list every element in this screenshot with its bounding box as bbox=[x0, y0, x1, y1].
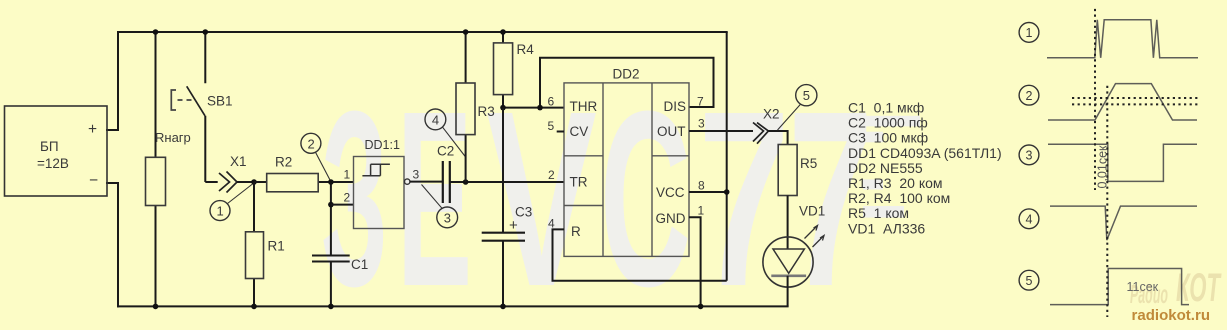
resistor Rnagr bbox=[146, 32, 191, 306]
svg-text:C3 100 мкф: C3 100 мкф bbox=[848, 130, 928, 146]
svg-text:C1: C1 bbox=[351, 257, 368, 272]
junction X1-R1-R2 bbox=[251, 179, 257, 185]
svg-text:1: 1 bbox=[1026, 26, 1033, 40]
waveform 3 bbox=[1048, 144, 1197, 181]
svg-text:DD2: DD2 bbox=[613, 67, 640, 82]
node 4 callout bbox=[425, 109, 466, 157]
svg-text:R1, R3 20 ком: R1, R3 20 ком bbox=[848, 175, 943, 191]
threshold dotted lines bbox=[1072, 98, 1198, 104]
svg-text:X1: X1 bbox=[230, 154, 247, 169]
diagram circle 5 bbox=[1019, 270, 1039, 290]
svg-text:3: 3 bbox=[444, 210, 451, 225]
diagram circle 2 bbox=[1019, 85, 1039, 105]
svg-text:C2: C2 bbox=[437, 144, 454, 159]
junction Rnagr top rail bbox=[153, 29, 159, 35]
svg-text:DD1:1: DD1:1 bbox=[365, 138, 400, 152]
svg-text:DIS: DIS bbox=[664, 99, 687, 114]
dotted time reference line 2 bbox=[1106, 86, 1108, 317]
svg-text:4: 4 bbox=[1026, 213, 1033, 227]
svg-text:5: 5 bbox=[1026, 274, 1033, 288]
svg-text:4: 4 bbox=[432, 112, 439, 127]
LED VD1 bbox=[763, 204, 825, 307]
wire THR node down to C3 bbox=[502, 108, 504, 233]
svg-text:X2: X2 bbox=[763, 107, 780, 122]
junction Rnagr bottom rail bbox=[153, 304, 159, 310]
MAIN SCHEMATIC bbox=[107, 32, 788, 306]
junction SB1 top rail bbox=[203, 29, 209, 35]
waveform 5 bbox=[1050, 269, 1189, 305]
svg-text:3: 3 bbox=[1026, 149, 1033, 163]
svg-text:КОТ: КОТ bbox=[1176, 266, 1222, 310]
svg-text:VD1: VD1 bbox=[799, 204, 825, 219]
diagram circle 4 bbox=[1019, 209, 1039, 229]
svg-text:2: 2 bbox=[308, 136, 315, 151]
svg-text:2: 2 bbox=[548, 168, 555, 182]
svg-text:R: R bbox=[571, 224, 581, 239]
svg-text:8: 8 bbox=[698, 179, 705, 193]
junction R4-THR bbox=[500, 105, 506, 111]
junction bridge-THR bbox=[537, 105, 543, 111]
wire THR-DIS bridge bbox=[540, 58, 714, 108]
svg-text:+: + bbox=[88, 121, 97, 138]
switch SB1 bbox=[171, 32, 232, 182]
svg-text:7: 7 bbox=[697, 95, 704, 109]
svg-text:R5: R5 bbox=[800, 156, 817, 171]
wire BP plus to top rail bbox=[107, 32, 118, 130]
svg-text:VCC: VCC bbox=[656, 185, 685, 200]
svg-text:11сек: 11сек bbox=[1127, 280, 1159, 294]
svg-text:1: 1 bbox=[698, 204, 705, 218]
watermark big letters bbox=[321, 59, 873, 330]
resistor R1 bbox=[246, 182, 285, 306]
svg-text:SB1: SB1 bbox=[207, 94, 233, 109]
resistor R5 bbox=[778, 145, 817, 250]
svg-text:6: 6 bbox=[548, 95, 555, 109]
connector X1 bbox=[205, 154, 254, 193]
svg-text:GND: GND bbox=[656, 211, 686, 226]
capacitor C2 bbox=[437, 144, 564, 204]
resistor R2 bbox=[254, 155, 354, 192]
junction VCC pin8 bbox=[724, 189, 730, 195]
wire bottom rail bbox=[118, 305, 788, 307]
svg-text:DD1 CD4093A (561ТЛ1): DD1 CD4093A (561ТЛ1) bbox=[848, 145, 1002, 161]
pin 4 label and R stub wire to VCC bbox=[548, 217, 727, 281]
svg-text:OUT: OUT bbox=[657, 124, 686, 139]
svg-text:DD2 NE555: DD2 NE555 bbox=[848, 160, 923, 176]
diagram circle 1 bbox=[1019, 23, 1039, 43]
capacitor C3 bbox=[482, 205, 533, 307]
node 1 callout bbox=[210, 184, 253, 221]
junction R4 top rail bbox=[500, 29, 506, 35]
power supply BP 12V bbox=[5, 106, 108, 196]
svg-text:Rнагр: Rнагр bbox=[155, 130, 191, 145]
pin 8 label and VCC stub bbox=[689, 179, 727, 193]
dotted time reference line 1 bbox=[1094, 9, 1096, 190]
wire THR node bbox=[503, 107, 564, 109]
svg-text:1: 1 bbox=[344, 168, 351, 182]
svg-text:=12В: =12В bbox=[37, 156, 69, 171]
node 3 callout bbox=[422, 185, 458, 228]
svg-text:7: 7 bbox=[698, 59, 790, 330]
waveform 2 bbox=[1048, 84, 1197, 120]
node 5 callout bbox=[778, 85, 817, 130]
svg-text:2: 2 bbox=[1026, 89, 1033, 103]
svg-text:1: 1 bbox=[217, 204, 224, 219]
svg-text:5: 5 bbox=[803, 88, 810, 103]
pin 5 label and CV stub bbox=[548, 119, 565, 133]
connector X2 bbox=[753, 107, 788, 145]
svg-text:TR: TR bbox=[570, 175, 588, 190]
gate DD1:1 bbox=[331, 138, 443, 229]
junction C3 bottom rail bbox=[500, 304, 506, 310]
waveform 4 bbox=[1050, 206, 1197, 240]
diagram circle 3 bbox=[1019, 145, 1039, 165]
waveform 1 bbox=[1047, 20, 1198, 58]
junction C2-R3-TR bbox=[463, 179, 469, 185]
svg-text:0,01сек: 0,01сек bbox=[1095, 145, 1109, 189]
svg-text:C2 1000 пф: C2 1000 пф bbox=[848, 115, 928, 131]
svg-text:VD1 АЛ336: VD1 АЛ336 bbox=[848, 220, 925, 236]
junction R1 bottom rail bbox=[251, 304, 257, 310]
svg-text:R3: R3 bbox=[478, 104, 495, 119]
wire VCC vertical from top rail bbox=[726, 32, 728, 281]
svg-text:R5 1 ком: R5 1 ком bbox=[848, 205, 909, 221]
svg-text:R1: R1 bbox=[268, 239, 285, 254]
svg-text:radiokot.ru: radiokot.ru bbox=[1132, 307, 1211, 324]
junction R3 top rail bbox=[463, 29, 469, 35]
junction GND bottom rail bbox=[698, 304, 704, 310]
svg-text:5: 5 bbox=[548, 119, 555, 133]
resistor R4 bbox=[494, 32, 535, 108]
watermark ghost logo Радио КОТ bbox=[1130, 266, 1222, 310]
capacitor C1 bbox=[312, 182, 368, 306]
svg-text:R4: R4 bbox=[517, 42, 535, 57]
svg-text:3: 3 bbox=[698, 117, 705, 131]
pin 1 label and GND wire bbox=[689, 204, 705, 307]
junction DD1 pin2 bbox=[328, 202, 334, 208]
svg-text:C1 0,1 мкф: C1 0,1 мкф bbox=[848, 100, 924, 116]
parts list bbox=[848, 100, 1002, 237]
svg-text:2: 2 bbox=[344, 191, 351, 205]
IC DD2 NE555 bbox=[564, 67, 689, 257]
svg-text:БП: БП bbox=[40, 139, 59, 154]
svg-text:Е: Е bbox=[397, 59, 472, 330]
svg-text:R2: R2 bbox=[275, 155, 292, 170]
wire top rail bbox=[118, 31, 727, 33]
node 2 callout bbox=[301, 133, 330, 180]
svg-text:+: + bbox=[509, 217, 518, 234]
svg-text:−: − bbox=[89, 172, 98, 189]
svg-text:3: 3 bbox=[413, 168, 420, 182]
svg-text:R2, R4 100 ком: R2, R4 100 ком bbox=[848, 190, 950, 206]
pin 3 label and OUT wire bbox=[689, 117, 753, 132]
junction R2-DD1 pin1 bbox=[328, 179, 334, 185]
watermark fragments near parts list bbox=[830, 116, 920, 218]
junction C1 bottom rail bbox=[328, 304, 334, 310]
resistor R3 bbox=[456, 32, 495, 182]
svg-text:THR: THR bbox=[570, 99, 598, 114]
wire BP minus to bottom rail bbox=[107, 183, 118, 306]
svg-text:CV: CV bbox=[570, 124, 589, 139]
